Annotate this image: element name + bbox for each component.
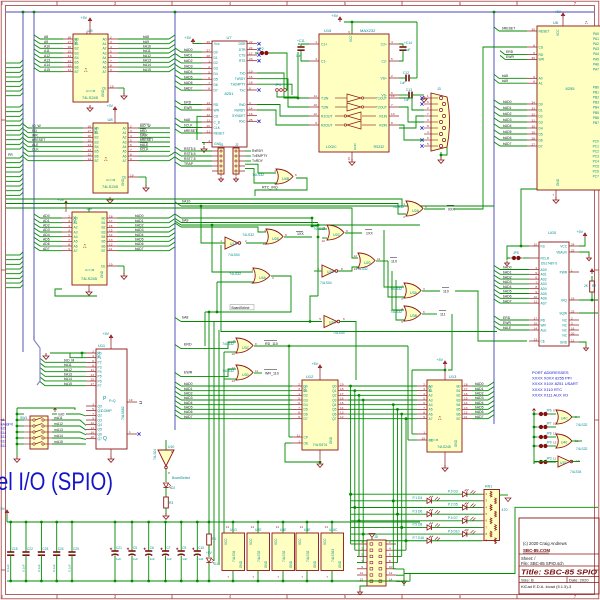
svg-text:4: 4 xyxy=(423,392,425,396)
svg-text:2: 2 xyxy=(130,125,132,129)
svg-text:BoardSelect: BoardSelect xyxy=(232,306,250,310)
svg-text:bAD2: bAD2 xyxy=(135,224,144,228)
svg-text:C15: C15 xyxy=(12,547,18,551)
svg-text:7: 7 xyxy=(130,148,132,152)
svg-text:2: 2 xyxy=(245,239,247,243)
svg-text:bAD2: bAD2 xyxy=(475,392,484,396)
gate U3C 74LS32 xyxy=(222,338,257,356)
svg-text:B4: B4 xyxy=(75,56,79,60)
svg-text:23: 23 xyxy=(571,310,575,314)
svg-text:U30: U30 xyxy=(242,373,249,377)
svg-text:17: 17 xyxy=(249,52,253,56)
svg-text:4: 4 xyxy=(391,40,393,44)
svg-text:bA9: bA9 xyxy=(502,79,508,83)
svg-text:DS17487-5: DS17487-5 xyxy=(541,262,557,266)
wire U2C out xyxy=(318,229,373,238)
svg-text:14: 14 xyxy=(325,525,329,529)
svg-text:mA12: mA12 xyxy=(54,422,63,426)
svg-text:R1IN: R1IN xyxy=(379,114,387,118)
ground UG0 xyxy=(579,342,588,351)
svg-text:U1C: U1C xyxy=(329,321,336,325)
ground J1 J2 xyxy=(219,174,239,182)
svg-text:LOGIC: LOGIC xyxy=(326,145,337,149)
svg-text:A2: A2 xyxy=(102,47,106,51)
svg-text:U2A: U2A xyxy=(412,209,420,213)
svg-text:14: 14 xyxy=(464,401,468,405)
svg-text:B5: B5 xyxy=(101,240,105,244)
svg-text:10: 10 xyxy=(389,565,393,569)
svg-text:bAD5: bAD5 xyxy=(135,238,144,242)
svg-text:AD7: AD7 xyxy=(43,247,50,251)
svg-text:JP9: JP9 xyxy=(546,441,552,445)
svg-text:bAD5: bAD5 xyxy=(184,406,193,410)
svg-text:C7: C7 xyxy=(167,546,171,550)
svg-text:RST7.5: RST7.5 xyxy=(184,157,196,161)
svg-text:3: 3 xyxy=(92,403,94,407)
svg-text:6: 6 xyxy=(68,233,70,237)
svg-text:AD6: AD6 xyxy=(541,297,547,301)
svg-text:A4: A4 xyxy=(122,145,126,149)
svg-text:5: 5 xyxy=(68,229,70,233)
svg-text:1uF: 1uF xyxy=(133,557,138,561)
svg-text:bAD4: bAD4 xyxy=(184,70,193,74)
svg-text:1uF: 1uF xyxy=(167,557,172,561)
svg-text:1: 1 xyxy=(298,440,300,444)
svg-text:74LS32: 74LS32 xyxy=(242,233,254,237)
svg-text:6: 6 xyxy=(92,359,94,363)
svg-text:SW1: SW1 xyxy=(20,416,27,420)
svg-text:RESET: RESET xyxy=(214,131,225,135)
svg-text:D1: D1 xyxy=(304,389,308,393)
svg-text:RxC: RxC xyxy=(239,120,246,124)
svg-text:32: 32 xyxy=(532,113,536,117)
svg-text:13: 13 xyxy=(354,267,358,271)
svg-text:DSR: DSR xyxy=(239,42,247,46)
svg-text:B6: B6 xyxy=(75,65,79,69)
gate U4C 74LS32 xyxy=(556,410,588,427)
svg-text:bAD6: bAD6 xyxy=(184,81,193,85)
capacitor C13 xyxy=(399,88,427,102)
svg-text:P=Q: P=Q xyxy=(109,399,116,403)
svg-text:C1-: C1- xyxy=(321,59,326,63)
svg-text:3: 3 xyxy=(130,129,132,133)
switch SW1 xyxy=(20,416,52,449)
wire y218 run xyxy=(175,214,313,219)
svg-text:A0: A0 xyxy=(102,37,106,41)
ground U11 xyxy=(108,449,114,462)
svg-text:bA8: bA8 xyxy=(502,74,508,78)
svg-text:JP7: JP7 xyxy=(546,422,552,426)
svg-text:U4B: U4B xyxy=(282,177,290,181)
ic U13 74LS245 xyxy=(417,374,472,452)
svg-text:74LS32: 74LS32 xyxy=(282,550,286,562)
svg-text:J2: J2 xyxy=(235,143,239,147)
svg-text:J3: J3 xyxy=(437,87,441,91)
svg-text:PB4: PB4 xyxy=(593,106,599,110)
svg-text:11: 11 xyxy=(88,157,91,161)
svg-text:470: 470 xyxy=(502,508,508,512)
svg-text:74LS245: 74LS245 xyxy=(82,95,99,100)
svg-text:1XX: 1XX xyxy=(366,232,373,236)
svg-text:bAD1: bAD1 xyxy=(503,106,512,110)
svg-text:5: 5 xyxy=(110,50,112,54)
ic U12 74LS574 xyxy=(292,374,348,450)
svg-text:RD: RD xyxy=(541,318,546,322)
svg-text:Q1: Q1 xyxy=(332,389,337,393)
svg-text:C25: C25 xyxy=(73,547,79,551)
jumper JP8 xyxy=(534,432,557,440)
svg-text:18: 18 xyxy=(340,387,344,391)
capacitor group 0.1uF xyxy=(6,521,79,583)
wire SW1 to U11 xyxy=(52,416,86,444)
svg-text:0XX: 0XX xyxy=(448,208,455,212)
svg-text:Q0: Q0 xyxy=(98,404,103,408)
wire +5V rail xyxy=(0,507,420,522)
svg-text:7: 7 xyxy=(92,412,94,416)
wire left edge cluster A xyxy=(6,60,23,96)
wire J2 ready nets xyxy=(245,149,268,163)
svg-text:74LS682: 74LS682 xyxy=(121,406,125,420)
svg-text:B4: B4 xyxy=(95,145,99,149)
text switch notes xyxy=(1,418,14,448)
ground R3 xyxy=(163,513,169,519)
svg-text:PA3: PA3 xyxy=(593,47,599,51)
svg-text:12: 12 xyxy=(571,339,575,343)
svg-text:74LS574: 74LS574 xyxy=(313,443,327,447)
svg-text:RxD: RxD xyxy=(239,103,246,107)
svg-text:U1E: U1E xyxy=(560,461,567,465)
svg-text:1uF: 1uF xyxy=(400,81,406,85)
svg-text:PB7: PB7 xyxy=(593,121,599,125)
svg-text:+5V: +5V xyxy=(107,104,114,108)
svg-text:24: 24 xyxy=(249,46,253,50)
svg-text:RN1: RN1 xyxy=(485,485,492,489)
svg-text:bIO_M: bIO_M xyxy=(64,359,74,363)
wire gates feed verticals xyxy=(384,230,404,320)
svg-text:1uF: 1uF xyxy=(404,98,410,102)
svg-text:TxD: TxD xyxy=(239,71,246,75)
wire trunk x224 xyxy=(223,352,225,570)
svg-text:Q6: Q6 xyxy=(332,412,337,416)
svg-text:8: 8 xyxy=(298,411,300,415)
svg-text:GND: GND xyxy=(239,560,243,568)
svg-text:bAD0: bAD0 xyxy=(184,382,193,386)
wire RST nets to J1 xyxy=(175,147,212,166)
svg-text:C6: C6 xyxy=(150,546,154,550)
svg-text:D3: D3 xyxy=(214,67,218,71)
svg-text:D6: D6 xyxy=(539,138,543,142)
wire U9 CE loop xyxy=(55,289,97,296)
svg-text:R2OUT: R2OUT xyxy=(321,123,333,127)
svg-text:D5: D5 xyxy=(304,408,308,412)
svg-text:DTR: DTR xyxy=(239,48,246,52)
svg-text:bAD4: bAD4 xyxy=(475,401,484,405)
svg-text:1: 1 xyxy=(423,431,425,435)
svg-text:24: 24 xyxy=(571,243,575,247)
svg-text:A5: A5 xyxy=(122,150,126,154)
svg-text:5: 5 xyxy=(298,397,300,401)
svg-text:OE: OE xyxy=(304,441,310,445)
svg-text:111: 111 xyxy=(440,313,445,317)
svg-text:PA7: PA7 xyxy=(593,67,599,71)
svg-text:RxRDY: RxRDY xyxy=(252,149,264,153)
svg-text:bAD7: bAD7 xyxy=(184,415,193,419)
svg-text:bA13: bA13 xyxy=(64,373,72,377)
svg-text:bAD3: bAD3 xyxy=(503,280,512,284)
svg-text:U15: U15 xyxy=(324,28,332,33)
svg-text:Q3: Q3 xyxy=(98,418,103,422)
svg-text:P5: P5 xyxy=(98,375,102,379)
svg-text:1uF: 1uF xyxy=(182,557,187,561)
ground U5 CE xyxy=(87,88,127,111)
svg-text:bAD3: bAD3 xyxy=(475,396,484,400)
svg-text:14: 14 xyxy=(91,426,95,430)
svg-text:bA12: bA12 xyxy=(143,54,151,58)
svg-text:13: 13 xyxy=(391,112,395,116)
svg-text:mA15: mA15 xyxy=(54,440,63,444)
svg-text:28: 28 xyxy=(207,54,211,58)
power +5V U5 xyxy=(81,16,92,34)
svg-text:Q5: Q5 xyxy=(332,408,337,412)
wire SW1 gnd rail xyxy=(14,408,75,462)
wire long y208 xyxy=(6,208,358,258)
svg-text:+5V: +5V xyxy=(577,230,584,234)
svg-text:bAD6: bAD6 xyxy=(503,136,512,140)
svg-text:+5V: +5V xyxy=(0,507,6,511)
wire y227 run xyxy=(175,223,262,232)
wire nets to U6 xyxy=(494,27,527,147)
svg-text:6: 6 xyxy=(423,401,425,405)
svg-text:GND: GND xyxy=(101,89,105,97)
svg-text:A3: A3 xyxy=(429,398,433,402)
svg-text:RCLR: RCLR xyxy=(541,256,550,260)
svg-text:7: 7 xyxy=(110,59,112,63)
svg-text:bIO_W: bIO_W xyxy=(140,124,151,128)
svg-text:9: 9 xyxy=(298,415,300,419)
svg-text:bAD7: bAD7 xyxy=(475,415,484,419)
svg-text:VCC: VCC xyxy=(323,538,327,545)
svg-text:P6: P6 xyxy=(98,379,102,383)
svg-text:15: 15 xyxy=(347,157,351,161)
svg-text:bAD2: bAD2 xyxy=(184,392,193,396)
svg-text:11: 11 xyxy=(109,247,112,251)
svg-text:A2: A2 xyxy=(74,226,78,230)
svg-text:A4: A4 xyxy=(102,56,106,60)
svg-text:12: 12 xyxy=(389,571,393,575)
svg-text:6: 6 xyxy=(208,76,210,80)
svg-text:C10: C10 xyxy=(198,546,204,550)
svg-text:D4: D4 xyxy=(539,126,543,130)
svg-text:mA14: mA14 xyxy=(54,434,63,438)
svg-text:8: 8 xyxy=(341,267,343,271)
svg-text:16: 16 xyxy=(68,45,72,49)
svg-text:9: 9 xyxy=(92,417,94,421)
svg-text:11: 11 xyxy=(91,368,94,372)
svg-text:12: 12 xyxy=(314,112,318,116)
wire U11 P0P1 gnd xyxy=(43,352,86,360)
wire U6 pc to rtc xyxy=(521,189,537,246)
svg-text:CE: CE xyxy=(122,175,127,179)
svg-text:EWR: EWR xyxy=(506,55,514,59)
svg-text:110: 110 xyxy=(443,290,449,294)
svg-text:4: 4 xyxy=(274,169,276,173)
svg-text:Q5: Q5 xyxy=(98,428,103,432)
svg-text:NC: NC xyxy=(562,328,567,332)
svg-text:D7: D7 xyxy=(304,417,308,421)
svg-text:D0: D0 xyxy=(539,102,543,106)
svg-text:AD0: AD0 xyxy=(43,214,50,218)
svg-text:PB3: PB3 xyxy=(593,101,599,105)
svg-text:20: 20 xyxy=(571,332,575,336)
svg-text:bAD7: bAD7 xyxy=(503,142,512,146)
svg-text:XXXX X110 RTC: XXXX X110 RTC xyxy=(532,387,562,392)
svg-text:6: 6 xyxy=(298,401,300,405)
svg-text:SBC-85.COM: SBC-85.COM xyxy=(523,548,550,553)
svg-text:RxRDY: RxRDY xyxy=(235,108,247,112)
svg-text:19: 19 xyxy=(130,174,134,178)
svg-text:WR: WR xyxy=(214,108,220,112)
svg-text:bA11: bA11 xyxy=(64,363,72,367)
svg-text:19: 19 xyxy=(571,297,575,301)
svg-text:PC2: PC2 xyxy=(593,149,600,153)
svg-text:12: 12 xyxy=(354,254,358,258)
svg-text:VCC: VCC xyxy=(274,538,278,545)
svg-text:10: 10 xyxy=(207,107,211,111)
svg-text:CP: CP xyxy=(304,435,309,439)
svg-text:AD3: AD3 xyxy=(43,228,50,232)
svg-text:15: 15 xyxy=(109,229,113,233)
svg-text:74LS32: 74LS32 xyxy=(356,267,368,271)
ground U7 xyxy=(201,143,207,153)
svg-text:36: 36 xyxy=(532,56,536,60)
wire IRQ xyxy=(579,299,598,301)
svg-text:U13: U13 xyxy=(449,374,457,379)
svg-text:⎍: ⎍ xyxy=(438,416,442,422)
svg-text:VBAUX: VBAUX xyxy=(556,250,568,254)
svg-text:CE: CE xyxy=(102,86,107,90)
svg-text:13: 13 xyxy=(232,379,236,383)
svg-text:A==>B: A==>B xyxy=(106,178,115,182)
svg-text:AD4: AD4 xyxy=(541,287,547,291)
svg-text:C2-: C2- xyxy=(382,59,387,63)
ground U13 xyxy=(442,452,448,471)
wire bus A8-A15 to U5 xyxy=(34,35,63,72)
ground J3 xyxy=(438,147,447,163)
svg-text:6: 6 xyxy=(295,173,297,177)
svg-text:EWR: EWR xyxy=(503,321,511,325)
svg-text:0.1uF: 0.1uF xyxy=(68,564,72,572)
svg-text:bRESET: bRESET xyxy=(184,129,197,133)
svg-text:P4: P4 xyxy=(98,370,102,374)
ic U9 74LS245 xyxy=(62,206,117,285)
ground U15 xyxy=(347,152,355,165)
svg-text:8: 8 xyxy=(285,233,287,237)
svg-text:mIO: mIO xyxy=(58,412,65,416)
svg-text:13: 13 xyxy=(534,338,538,342)
svg-text:R2: R2 xyxy=(592,284,596,288)
connector J2 xyxy=(233,143,245,174)
svg-text:B1: B1 xyxy=(101,221,105,225)
svg-text:2: 2 xyxy=(208,65,210,69)
svg-text:A10: A10 xyxy=(44,45,50,49)
wire bAD0-bAD7 U9 to bus xyxy=(117,214,175,251)
svg-text:D2: D2 xyxy=(304,394,308,398)
svg-text:74LS32: 74LS32 xyxy=(576,447,588,451)
wire U10 top xyxy=(165,440,167,450)
svg-text:AD7: AD7 xyxy=(541,301,547,305)
svg-text:14: 14 xyxy=(249,107,253,111)
svg-text:GND: GND xyxy=(556,178,560,186)
svg-text:TxEMPTY: TxEMPTY xyxy=(252,154,268,158)
svg-text:Date: 2020: Date: 2020 xyxy=(569,577,589,582)
svg-text:B2: B2 xyxy=(101,226,105,230)
gate U1C 74LS04 xyxy=(319,316,345,336)
svg-text:A2: A2 xyxy=(429,394,433,398)
svg-text:CLK: CLK xyxy=(32,148,39,152)
svg-text:1: 1 xyxy=(403,202,405,206)
svg-text:GND: GND xyxy=(353,143,357,151)
svg-text:PA2: PA2 xyxy=(593,42,599,46)
svg-text:bRD: bRD xyxy=(140,129,147,133)
capacitor C11 xyxy=(296,39,309,61)
svg-text:74LS32: 74LS32 xyxy=(306,550,310,562)
wire U15 to J3 xyxy=(399,98,424,140)
gate U4B 74LS32 xyxy=(252,169,297,186)
svg-text:PORT ADDRESSES: PORT ADDRESSES xyxy=(532,370,569,375)
svg-text:1uF: 1uF xyxy=(116,557,121,561)
svg-text:bRESET: bRESET xyxy=(32,138,45,142)
svg-text:19: 19 xyxy=(340,383,344,387)
svg-text:19: 19 xyxy=(249,70,253,74)
svg-text:6: 6 xyxy=(533,44,535,48)
gate U1A 74LS04 xyxy=(220,237,247,257)
svg-text:A2: A2 xyxy=(122,136,126,140)
svg-text:bAD5: bAD5 xyxy=(184,75,193,79)
svg-text:4: 4 xyxy=(298,392,300,396)
wire U13 to bus bAD xyxy=(472,382,494,419)
power +5V U12 xyxy=(312,362,322,380)
svg-text:bRESET: bRESET xyxy=(502,27,515,31)
svg-text:EWR: EWR xyxy=(184,370,193,374)
svg-text:⊐: ⊐ xyxy=(139,400,142,405)
svg-text:CS: CS xyxy=(539,45,544,49)
svg-text:Title: SBC-85 SPIO: Title: SBC-85 SPIO xyxy=(521,570,598,577)
svg-text:17: 17 xyxy=(88,129,92,133)
svg-text:BoardSelect: BoardSelect xyxy=(172,476,190,480)
wire bA9 run xyxy=(175,219,420,227)
wire bA10 run xyxy=(175,200,494,208)
svg-text:30: 30 xyxy=(532,125,536,129)
led array P.0-P.7 xyxy=(349,489,482,543)
power +5V U7 xyxy=(185,36,203,44)
svg-text:13: 13 xyxy=(340,411,344,415)
svg-text:bAD0: bAD0 xyxy=(135,214,144,218)
ground UG0 vbaux xyxy=(579,252,591,261)
svg-text:bA12: bA12 xyxy=(64,368,72,372)
svg-text:2: 2 xyxy=(68,215,70,219)
svg-text:11: 11 xyxy=(255,369,258,373)
svg-text:RD_110: RD_110 xyxy=(265,342,278,346)
svg-text:2: 2 xyxy=(401,297,403,301)
svg-text:GND: GND xyxy=(264,560,268,568)
power +5V U15 xyxy=(332,14,418,34)
svg-text:bA8: bA8 xyxy=(182,315,188,319)
svg-text:D0: D0 xyxy=(304,384,308,388)
gate U2C 74LS32 xyxy=(313,225,348,243)
svg-text:3: 3 xyxy=(423,387,425,391)
svg-text:AD1: AD1 xyxy=(43,219,50,223)
svg-text:22: 22 xyxy=(571,249,575,253)
